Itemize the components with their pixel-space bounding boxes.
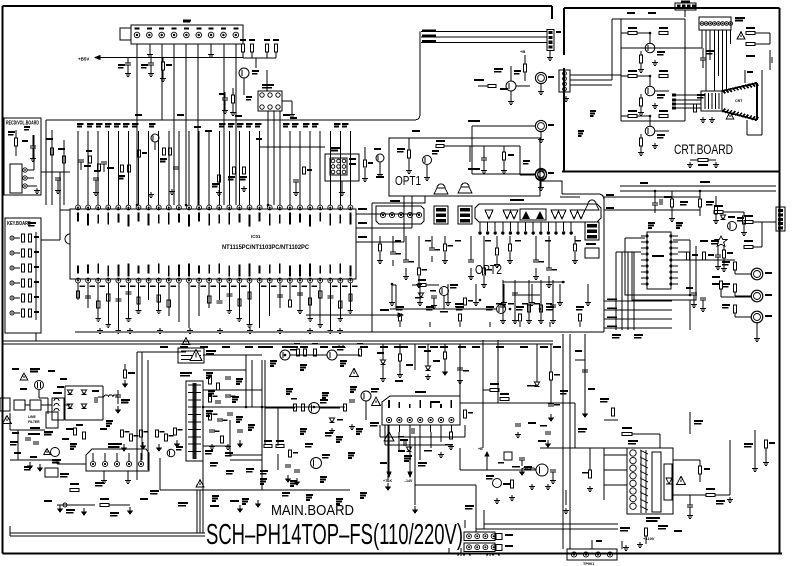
- svg-text:MAIN.BOARD: MAIN.BOARD: [271, 503, 354, 519]
- svg-text:CRT: CRT: [735, 99, 743, 103]
- svg-text:+B: +B: [520, 49, 525, 54]
- svg-text:–14V: –14V: [404, 479, 413, 483]
- svg-text:+110V: +110V: [643, 536, 655, 541]
- svg-text:RECD/VOL.BOARD: RECD/VOL.BOARD: [6, 121, 39, 127]
- svg-text:KEY.BOARD: KEY.BOARD: [7, 221, 31, 227]
- svg-text:NT1115PC/NT1103PC/NT1102PC: NT1115PC/NT1103PC/NT1102PC: [222, 244, 309, 251]
- svg-text:FILTER: FILTER: [28, 420, 40, 424]
- svg-text:+B: +B: [478, 447, 483, 451]
- svg-text:IC01: IC01: [251, 234, 261, 239]
- svg-text:TP901: TP901: [583, 562, 594, 566]
- svg-text:SCH–PH14TOP–FS(110/220V): SCH–PH14TOP–FS(110/220V): [206, 519, 463, 551]
- svg-text:+B5V: +B5V: [78, 57, 89, 62]
- svg-text:LINE: LINE: [28, 415, 36, 419]
- svg-text:OPT1: OPT1: [395, 174, 421, 188]
- svg-text:CRT.BOARD: CRT.BOARD: [674, 142, 733, 157]
